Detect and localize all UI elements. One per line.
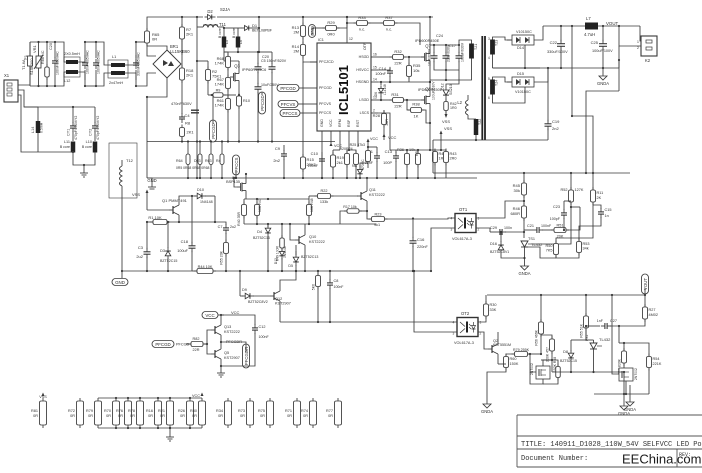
transistor Q1 (169, 202, 179, 218)
wire (586, 339, 594, 341)
wire (360, 163, 368, 167)
svg-text:V10150C: V10150C (516, 30, 532, 34)
svg-text:BZT52C15: BZT52C15 (160, 259, 177, 263)
svg-text:BZT52C13: BZT52C13 (301, 255, 318, 259)
capacitor C13 (393, 152, 399, 162)
resistor R60 (504, 354, 509, 371)
svg-text:R80: R80 (190, 409, 197, 413)
wire (243, 216, 245, 225)
svg-text:0R: 0R (118, 414, 123, 418)
svg-text:CY1: CY1 (67, 129, 71, 136)
optocoupler OT2 (453, 311, 482, 345)
resistor R1 (150, 220, 170, 225)
svg-text:R16: R16 (146, 409, 153, 413)
wire (446, 61, 459, 70)
svg-text:EEChina.com: EEChina.com (622, 452, 701, 467)
resistor R49 (280, 235, 285, 251)
svg-text:R40 35R: R40 35R (237, 212, 241, 226)
svg-text:CY2: CY2 (89, 129, 93, 136)
wire (528, 353, 542, 355)
junction (346, 177, 348, 179)
wire OT1 pin3 (431, 228, 455, 271)
svg-text:1N4148: 1N4148 (200, 200, 213, 204)
wire T12 down (121, 186, 123, 271)
svg-text:OT2: OT2 (461, 311, 470, 316)
winding T22 (474, 119, 479, 135)
wire (54, 42, 56, 58)
wire (147, 42, 156, 56)
wire (434, 150, 436, 152)
transistor Q6 2N7002 (619, 368, 638, 381)
wire LSCS (378, 113, 396, 150)
svg-text:D9: D9 (242, 288, 247, 292)
svg-text:10uF/630V: 10uF/630V (428, 48, 432, 66)
junction (618, 25, 620, 27)
resistor R77 (335, 398, 342, 428)
wire (501, 252, 525, 258)
svg-text:KST2222: KST2222 (309, 240, 325, 244)
wire (586, 325, 600, 327)
wire (178, 218, 180, 222)
wire (146, 222, 148, 250)
wire K2 pin1 (640, 26, 641, 41)
svg-text:C8: C8 (334, 279, 339, 283)
wire D1 column (258, 17, 260, 52)
resistor R63 (210, 142, 212, 155)
wire (95, 70, 97, 86)
wire (197, 60, 208, 62)
wire (376, 147, 378, 153)
junction (220, 314, 222, 316)
resistor R83 (622, 348, 627, 366)
svg-text:D15: D15 (517, 72, 524, 76)
capacitor CY1 (70, 122, 76, 132)
wire to OT1 pin4 (385, 218, 456, 219)
svg-text:R75: R75 (258, 409, 265, 413)
wire return ext (433, 139, 476, 141)
svg-text:GNDA: GNDA (518, 271, 530, 276)
junction (523, 200, 525, 202)
wire (648, 368, 650, 395)
wire (346, 165, 348, 179)
wire (417, 165, 419, 179)
resistor R79 (512, 352, 531, 357)
wire Q7 drain (429, 17, 431, 49)
diode D16 (498, 241, 504, 253)
svg-text:R55 20K: R55 20K (220, 250, 224, 264)
svg-text:Q13: Q13 (224, 325, 231, 329)
svg-text:D10: D10 (197, 188, 204, 192)
svg-text:2K1: 2K1 (186, 73, 194, 78)
wire sec2 bottom (493, 87, 526, 103)
wire (618, 46, 620, 68)
junction (475, 139, 477, 141)
wire D8 top (571, 339, 586, 341)
wire gnda rail right (594, 393, 649, 395)
capacitor C29 (496, 229, 506, 235)
resistor R48 (307, 202, 312, 219)
svg-text:0R: 0R (130, 414, 135, 418)
optocoupler OT1 (451, 207, 480, 241)
junction (196, 16, 198, 18)
wire (551, 360, 553, 372)
svg-text:220nF: 220nF (417, 245, 428, 249)
wire (302, 37, 304, 45)
svg-text:HSGD: HSGD (359, 55, 370, 59)
svg-text:6: 6 (488, 96, 490, 100)
junction (560, 67, 562, 69)
wire (221, 314, 224, 316)
svg-text:1: 1 (480, 321, 482, 325)
capacitor C11 (374, 152, 380, 162)
svg-text:0R5 0R68 0R68 0R68: 0R5 0R68 0R68 0R68 (176, 166, 209, 170)
wire (367, 162, 369, 169)
svg-text:2K1: 2K1 (187, 130, 195, 135)
wire (378, 56, 393, 58)
svg-text:D4: D4 (257, 230, 262, 234)
junction (235, 177, 237, 179)
wire (478, 316, 486, 322)
wire (340, 211, 347, 224)
wire (376, 161, 378, 178)
svg-text:Q11: Q11 (369, 188, 376, 192)
svg-text:C5 150nF/520V: C5 150nF/520V (261, 59, 287, 63)
wire (167, 222, 169, 248)
diode D1 (242, 26, 253, 31)
svg-text:3: 3 (488, 37, 490, 41)
junction (258, 16, 260, 18)
svg-text:D6: D6 (374, 92, 378, 96)
GNDA title (624, 398, 636, 412)
junction (570, 172, 572, 174)
inductor T11 (203, 22, 227, 27)
wire (525, 247, 557, 258)
junction (196, 140, 198, 142)
junction (83, 164, 85, 166)
junction (445, 69, 447, 71)
junction (500, 231, 502, 233)
svg-text:R22: R22 (321, 189, 328, 193)
wire (191, 196, 193, 244)
diode D6 (378, 85, 383, 96)
junction (95, 41, 97, 43)
svg-text:TL432: TL432 (599, 337, 611, 342)
svg-text:C29: C29 (490, 226, 497, 230)
choke L14 (36, 121, 41, 133)
svg-text:TS1: TS1 (528, 237, 535, 241)
svg-text:2u2: 2u2 (136, 254, 143, 259)
svg-text:R1 10K: R1 10K (148, 215, 162, 220)
wire (267, 236, 269, 271)
svg-text:C16: C16 (417, 237, 425, 242)
wire main mid rail (147, 177, 477, 179)
wire rect mid (524, 45, 526, 68)
wire (279, 304, 281, 322)
wire RSF pin (348, 138, 350, 150)
VCC arrow3 (367, 139, 370, 143)
svg-text:PFCGD: PFCGD (280, 86, 295, 91)
svg-text:2N7002: 2N7002 (634, 368, 638, 380)
svg-text:R56 466K: R56 466K (535, 329, 539, 345)
svg-text:2x47mH: 2x47mH (109, 81, 123, 85)
wire (593, 205, 601, 209)
junction (429, 16, 431, 18)
wire R7 to R18 (181, 39, 183, 55)
wire res return (476, 139, 548, 141)
junction (214, 221, 216, 223)
resistor R73 (247, 398, 254, 428)
capacitor C1 470nF (191, 109, 199, 111)
wire (579, 222, 601, 242)
svg-text:100nF/305VAC: 100nF/305VAC (97, 50, 101, 74)
svg-text:100nF: 100nF (541, 224, 552, 228)
resistor R57 (550, 336, 555, 354)
svg-text:5: 5 (488, 77, 490, 81)
wire (135, 70, 137, 86)
svg-text:L12: L12 (64, 79, 70, 83)
wire (61, 42, 66, 62)
wire sec1 top (493, 37, 513, 40)
wire (304, 224, 306, 232)
svg-text:D13: D13 (274, 258, 278, 264)
capacitor C7 (223, 224, 229, 234)
wire reg rail1 (244, 198, 309, 200)
wire (239, 271, 241, 296)
junction (206, 343, 208, 345)
wire AC top (30, 41, 61, 43)
svg-text:1K: 1K (414, 114, 419, 119)
wire (542, 229, 553, 231)
junction (139, 427, 141, 429)
svg-text:C24: C24 (436, 34, 443, 38)
resistor R67 (226, 75, 231, 92)
wire (256, 216, 258, 225)
wire (408, 77, 410, 83)
svg-text:L14: L14 (31, 127, 35, 133)
capacitor C10 (319, 155, 325, 165)
junction (238, 94, 240, 96)
svg-text:R9: R9 (216, 89, 221, 93)
svg-text:BZT52C8V1: BZT52C8V1 (490, 250, 509, 254)
diode D12 (443, 87, 449, 99)
wire (585, 328, 587, 340)
resistor R40 (242, 202, 247, 219)
capacitor CX2 (93, 59, 99, 69)
wire (359, 177, 361, 178)
wire (84, 70, 86, 86)
svg-text:C15: C15 (605, 208, 612, 212)
svg-text:VCC: VCC (388, 135, 397, 140)
wire (602, 49, 604, 69)
svg-text:OT1: OT1 (459, 207, 468, 212)
wire (383, 125, 385, 135)
capacitor C20 (52, 57, 58, 67)
net PFCGD oval gate (210, 120, 217, 142)
resistor R41 (433, 149, 438, 166)
junction (430, 270, 432, 272)
svg-text:221K: 221K (653, 362, 662, 366)
resistor R55b (224, 240, 229, 257)
wire D10 drop (214, 196, 216, 222)
wire (524, 247, 526, 258)
wire (281, 224, 283, 238)
svg-text:0R: 0R (303, 414, 308, 418)
wire sec2 top (493, 77, 513, 82)
svg-text:C23: C23 (553, 205, 560, 209)
svg-text:0R: 0R (70, 414, 75, 418)
junction (412, 270, 414, 272)
svg-text:S2JA: S2JA (220, 7, 230, 12)
wire (406, 150, 408, 154)
junction (359, 177, 361, 179)
shunt regulator TS1 TL432 (521, 237, 543, 247)
capacitor C27 (601, 323, 611, 329)
wire (181, 137, 183, 142)
junction (135, 41, 137, 43)
wire (227, 110, 229, 142)
wire CY1 top (72, 107, 74, 123)
junction (440, 149, 442, 151)
junction (560, 25, 562, 27)
svg-text:0R: 0R (152, 37, 157, 42)
wire gnda rail (552, 371, 624, 373)
wire (564, 200, 571, 202)
junction (37, 85, 39, 87)
wire (167, 222, 226, 225)
wire (302, 169, 304, 178)
svg-text:R71: R71 (285, 409, 292, 413)
svg-text:L10: L10 (86, 140, 92, 144)
svg-text:30k: 30k (514, 188, 520, 193)
wire (570, 340, 572, 351)
svg-text:HSVCC: HSVCC (356, 68, 369, 72)
wire (136, 73, 156, 86)
wire (487, 368, 506, 401)
wire to switch node (430, 70, 446, 80)
junction (346, 16, 348, 18)
capacitor C9 (281, 150, 287, 160)
junction (267, 198, 269, 200)
junction (540, 294, 542, 296)
resistor R27 (643, 304, 648, 322)
svg-text:SS210: SS210 (449, 84, 453, 95)
junction (271, 140, 273, 142)
wire vout rail (487, 294, 645, 296)
svg-text:C10: C10 (311, 151, 319, 156)
svg-text:4: 4 (488, 56, 490, 60)
wire Q10 base (290, 224, 295, 240)
wire (18, 42, 30, 85)
wire (221, 342, 246, 352)
svg-text:D12: D12 (441, 83, 445, 90)
svg-text:2: 2 (373, 109, 375, 113)
svg-text:T1.6A: T1.6A (21, 59, 26, 70)
VSS arrow lscs (440, 131, 443, 135)
wire (85, 41, 96, 43)
wire (367, 211, 372, 219)
svg-text:C12: C12 (259, 325, 266, 329)
wire (366, 204, 368, 211)
svg-text:R11: R11 (597, 191, 604, 195)
resistor R18 (180, 65, 185, 83)
wire (367, 142, 369, 147)
junction (406, 99, 408, 101)
svg-text:133k: 133k (320, 200, 328, 204)
junction (366, 177, 368, 179)
diode D4 (265, 225, 271, 237)
wire (359, 210, 367, 212)
GNDA right (618, 402, 630, 416)
wire (283, 159, 285, 178)
wire (197, 26, 203, 28)
junction (380, 99, 382, 101)
svg-text:R26: R26 (178, 409, 185, 413)
diode D15 (512, 72, 534, 94)
diode D10 (194, 193, 206, 199)
wire (563, 201, 565, 210)
svg-text:C18: C18 (181, 239, 189, 244)
svg-text:GNDA: GNDA (597, 81, 609, 86)
wire (147, 178, 152, 184)
junction (256, 223, 258, 225)
junction (281, 270, 283, 272)
wire (524, 258, 526, 262)
wire AC bottom (30, 85, 61, 87)
svg-text:R53: R53 (583, 242, 590, 246)
wire (497, 332, 499, 341)
wire (429, 123, 431, 150)
junction (429, 149, 431, 151)
wire (204, 343, 207, 345)
junction (585, 294, 587, 296)
title block frame (517, 415, 702, 467)
wire (644, 295, 646, 307)
capacitor C23 (561, 209, 567, 219)
wire R14 to PFCZCD (303, 56, 317, 63)
junction (167, 270, 169, 272)
wire rail B (213, 270, 431, 272)
svg-text:BZT52C8V2: BZT52C8V2 (248, 300, 268, 304)
svg-text:R73: R73 (238, 409, 245, 413)
resistor R66 (45, 64, 50, 80)
svg-text:BZT52C16: BZT52C16 (253, 236, 270, 240)
junction (366, 210, 368, 212)
wire (610, 326, 619, 343)
wire earth drop (83, 165, 85, 170)
junction (346, 22, 348, 24)
svg-text:D3: D3 (160, 249, 165, 253)
wire out gnd rail (493, 67, 620, 69)
junction (524, 67, 526, 69)
junction (146, 221, 148, 223)
capacitor C12 (252, 324, 258, 334)
wire RST pin (357, 138, 359, 147)
wire sec ctrl rail (433, 172, 630, 174)
svg-text:C4: C4 (185, 113, 191, 118)
junction (72, 151, 74, 153)
junction (329, 270, 331, 272)
wire K2 pin2 (619, 26, 641, 46)
junction (189, 397, 191, 399)
wire (181, 80, 183, 114)
wire R7 col (196, 27, 198, 61)
svg-text:T24: T24 (495, 80, 499, 86)
svg-text:470RC: 470RC (361, 159, 365, 170)
choke L1 (108, 60, 128, 78)
wire (458, 45, 460, 53)
svg-text:PFCGD: PFCGD (319, 86, 332, 90)
wire (468, 115, 476, 119)
